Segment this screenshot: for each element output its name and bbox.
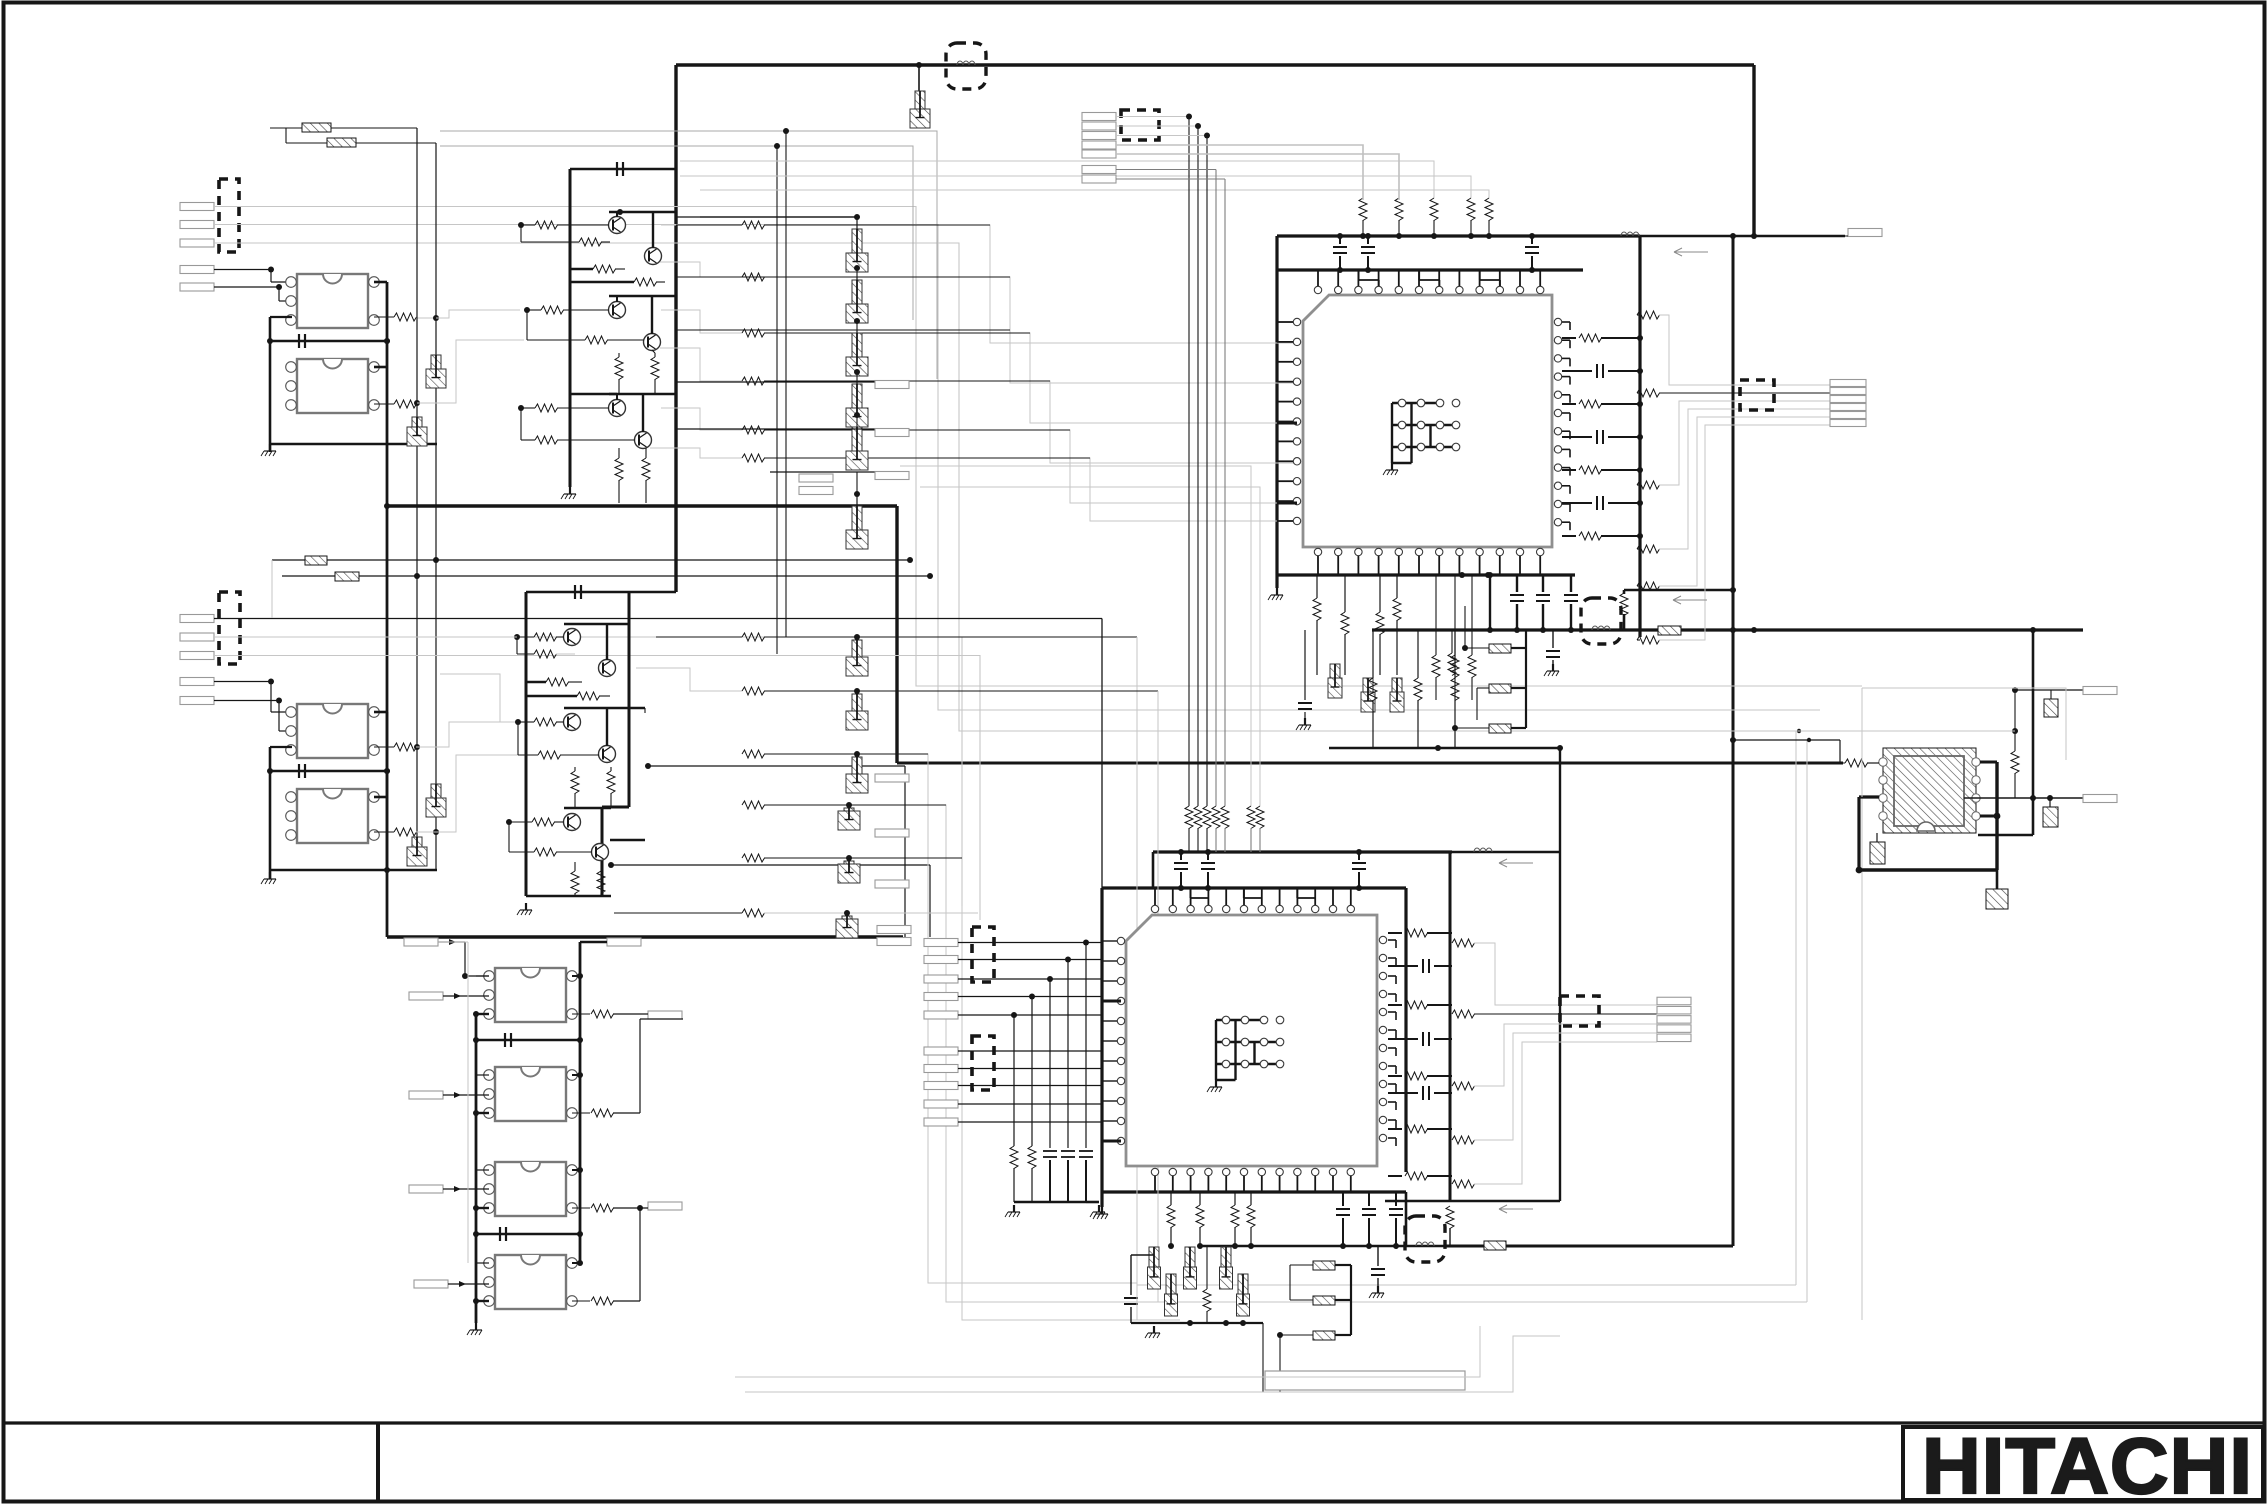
- svg-text:HITACHI: HITACHI: [1922, 1421, 2253, 1504]
